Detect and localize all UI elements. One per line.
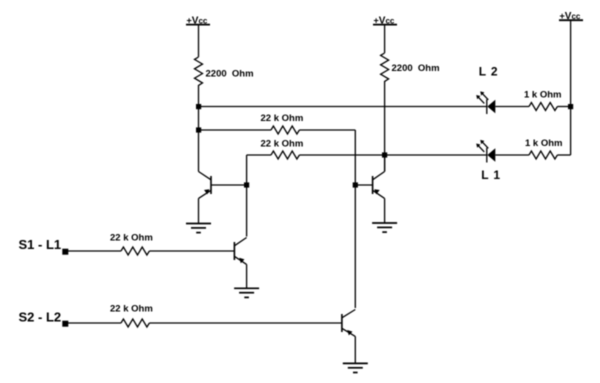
ground (Q4 emitter) bbox=[372, 223, 397, 232]
junction node at left column / L2 row bbox=[196, 104, 201, 109]
svg-text:S2 - L2: S2 - L2 bbox=[19, 310, 62, 325]
svg-text:S1 - L1: S1 - L1 bbox=[19, 237, 62, 252]
svg-text:22 k Ohm: 22 k Ohm bbox=[261, 139, 304, 150]
wire Q4 base bbox=[355, 184, 372, 186]
wire R8 to Q3 base bbox=[149, 322, 342, 324]
junction node at right column / L1 row bbox=[382, 152, 387, 157]
wire L1 to R6 bbox=[495, 154, 529, 156]
ground (Q3 emitter) bbox=[343, 363, 368, 372]
wire Q1 base bbox=[211, 184, 247, 186]
svg-text:2200 Ohm: 2200 Ohm bbox=[392, 63, 440, 74]
resistor R7 22 k Ohm (S1 input) bbox=[121, 247, 149, 255]
resistor R5 1 k Ohm (L2) bbox=[529, 103, 557, 111]
wire right Vcc rail bbox=[570, 20, 572, 155]
wire R7 to Q2 base bbox=[149, 250, 234, 252]
wire Q3 emitter down bbox=[354, 336, 356, 363]
power +Vcc rail 1 label bbox=[186, 15, 210, 26]
LED L2 bbox=[476, 91, 495, 114]
svg-text:1 k Ohm: 1 k Ohm bbox=[525, 138, 563, 149]
wire 22k row 1 right segment bbox=[299, 129, 355, 131]
transistor Q1 (left of latch, base bar right side) bbox=[199, 172, 212, 199]
junction node at Q4 base bbox=[353, 182, 358, 187]
junction node Q1 base bbox=[244, 182, 249, 187]
transistor Q3 (lower right, driven by S2) bbox=[342, 310, 355, 337]
wire left column down from R1 bbox=[198, 85, 200, 172]
wire L2 row left segment bbox=[199, 106, 487, 108]
wire 22k cross-coupling row 1 left segment bbox=[199, 129, 272, 131]
resistor R2 2200 Ohm (right collector load) bbox=[381, 53, 389, 81]
ground (Q2 emitter) bbox=[234, 288, 259, 297]
junction node right rail / L2 row bbox=[568, 104, 573, 109]
wire R5 to right rail bbox=[557, 106, 570, 108]
junction node at left column / 22k row bbox=[196, 127, 201, 132]
node S1 input terminal bbox=[62, 249, 68, 255]
wire vertical to Q4 base and Q3 collector bbox=[354, 130, 356, 308]
transistor Q4 (right of latch, base bar left side) bbox=[373, 172, 385, 199]
resistor R3 22 k Ohm (cross-coupling upper) bbox=[271, 126, 299, 134]
svg-text:2200 Ohm: 2200 Ohm bbox=[206, 69, 254, 80]
resistor R8 22 k Ohm (S2 input) bbox=[121, 319, 149, 327]
wire right column down from R2 bbox=[384, 81, 386, 172]
wire Vcc2 to R2 bbox=[384, 25, 386, 53]
svg-text:L 1: L 1 bbox=[481, 168, 501, 182]
resistor R6 1 k Ohm (L1) bbox=[529, 151, 557, 159]
svg-text:22 k Ohm: 22 k Ohm bbox=[110, 304, 153, 315]
resistor R1 2200 Ohm (left collector load) bbox=[195, 57, 203, 85]
svg-text:L 2: L 2 bbox=[479, 65, 499, 79]
wire Q2 emitter down bbox=[246, 264, 248, 288]
wire Q4 collector up bbox=[384, 155, 386, 172]
wire Vcc1 to R1 bbox=[198, 25, 200, 57]
LED L1 bbox=[476, 140, 495, 163]
wire L2 to R5 bbox=[495, 106, 529, 108]
wire R6 to right rail corner bbox=[557, 154, 570, 156]
power +Vcc rail 2 label bbox=[373, 15, 397, 26]
power +Vcc rail 3 label bbox=[559, 11, 583, 22]
wire corner from Q1 base column up to 22k row 2 bbox=[246, 155, 248, 237]
svg-text:1 k Ohm: 1 k Ohm bbox=[524, 90, 562, 101]
transistor Q2 (lower left, driven by S1) bbox=[234, 238, 246, 265]
wire Q4 emitter down bbox=[384, 198, 386, 223]
svg-text:22 k Ohm: 22 k Ohm bbox=[110, 233, 153, 244]
wire S1 input bbox=[65, 250, 121, 252]
wire 22k row 2 right segment to L1 row bbox=[299, 154, 486, 156]
wire Q1 emitter down bbox=[198, 198, 200, 223]
wire S2 input bbox=[65, 322, 121, 324]
ground (Q1 emitter) bbox=[186, 224, 211, 233]
node S2 input terminal bbox=[62, 321, 68, 327]
resistor R4 22 k Ohm zigzag bbox=[271, 151, 299, 159]
svg-text:22 k Ohm: 22 k Ohm bbox=[261, 113, 304, 124]
